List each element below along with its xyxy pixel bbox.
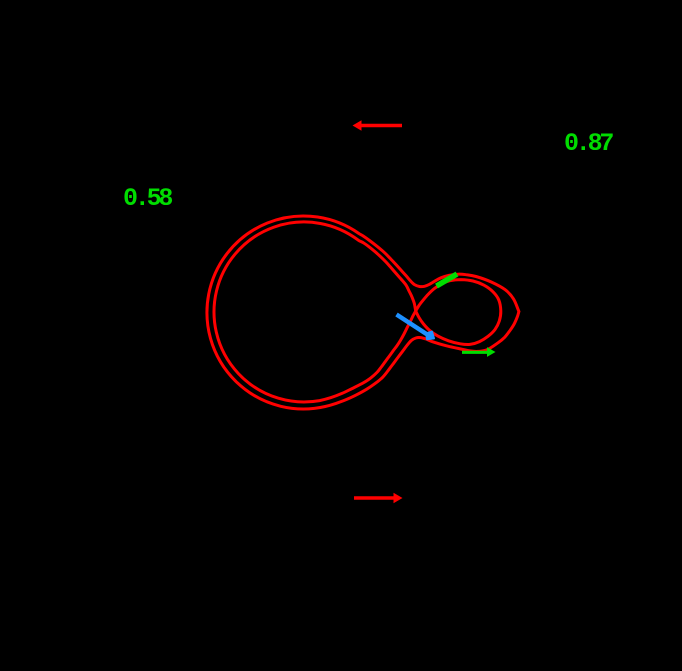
outer periodic orbit: big outer circle + hook funnels + pointed lens lobe — [207, 216, 519, 409]
green direction arrow (pointing right, below small loop) — [462, 347, 496, 357]
green tick on lens top — [437, 274, 458, 286]
blue arrow (pointing down-right at X crossing) — [397, 315, 435, 340]
label 0.58 — [123, 184, 170, 213]
inner periodic orbit: big inner circle with finger corner at X point — [214, 222, 416, 402]
label 0.87 — [564, 129, 611, 158]
small circle orbit closing at X point — [416, 280, 501, 345]
red direction arrow bottom (pointing right) — [354, 493, 403, 503]
red direction arrow top (pointing left) — [353, 120, 403, 130]
